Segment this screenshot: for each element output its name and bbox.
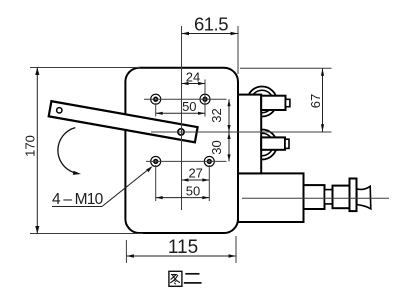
terminal T2 tip (285, 139, 289, 148)
svg-text:115: 115 (168, 237, 198, 258)
svg-text:27: 27 (188, 166, 202, 181)
lever pivot hole (178, 129, 184, 135)
svg-text:32: 32 (209, 108, 224, 122)
terminal T1 tip (286, 99, 290, 106)
dimension 32 (209, 99, 231, 132)
fitting block B (333, 186, 350, 209)
caption 二 (hand drawn) (184, 274, 202, 283)
svg-text:50: 50 (182, 99, 196, 114)
terminal T2 outer circle (247, 130, 277, 160)
svg-text:24: 24 (186, 70, 200, 85)
centerline row2 y=132 (151, 131, 332, 133)
terminal T1 nut (261, 96, 285, 110)
terminal T2 nut (261, 137, 285, 149)
hole top-right M10 (200, 94, 210, 104)
dimension 67 (240, 68, 332, 131)
dimension 30 (209, 132, 231, 161)
extension line hole 156 down (155, 103, 157, 117)
fitting block A (304, 185, 325, 209)
svg-text:61.5: 61.5 (194, 14, 228, 35)
centerline vertical x=181.5 (181, 26, 183, 210)
terminal T1 inner circle (251, 90, 273, 112)
lever end hole (57, 108, 62, 113)
extension line hole 205 vertical (204, 80, 206, 117)
fitting neck (325, 190, 333, 204)
hole bottom-left M10 (151, 156, 161, 166)
svg-text:170: 170 (23, 135, 38, 157)
centerline row1 y=99 (144, 98, 227, 100)
rotation arc arrow (58, 128, 81, 175)
dimension 61.5 (182, 14, 239, 75)
hole bottom-right M10 (204, 156, 214, 166)
svg-text:4 – M10: 4 – M10 (52, 191, 104, 208)
centerline of fitting y=198 (242, 197, 389, 199)
dimension 50 top (156, 99, 205, 115)
hole top-left M10 (151, 94, 161, 104)
terminal T1 outer circle (247, 87, 277, 117)
svg-text:67: 67 (308, 94, 323, 108)
centerline row3 y=161.4 (146, 160, 227, 162)
dimension 24 (182, 70, 206, 86)
dimension 170 (23, 68, 143, 234)
terminal mounting plate (238, 95, 261, 174)
svg-text:30: 30 (209, 140, 224, 154)
fitting flange (350, 179, 357, 212)
caption 图 (hand drawn) (169, 271, 182, 286)
main body rounded-rectangle housing (125, 68, 238, 233)
dimension 115 (126, 236, 236, 263)
extension line bottom hole 156 down (155, 165, 157, 201)
leader 4-M10 (52, 166, 153, 208)
dimension 50 bottom (156, 184, 210, 200)
fitting flare tip (357, 186, 371, 209)
dimension 27 (182, 166, 210, 182)
terminal T2 inner circle (251, 133, 273, 155)
lever arm (49, 101, 198, 142)
svg-text:50: 50 (186, 184, 200, 199)
cylinder body (bottom right) (238, 173, 304, 222)
extension line bottom hole 209 down (208, 165, 210, 201)
